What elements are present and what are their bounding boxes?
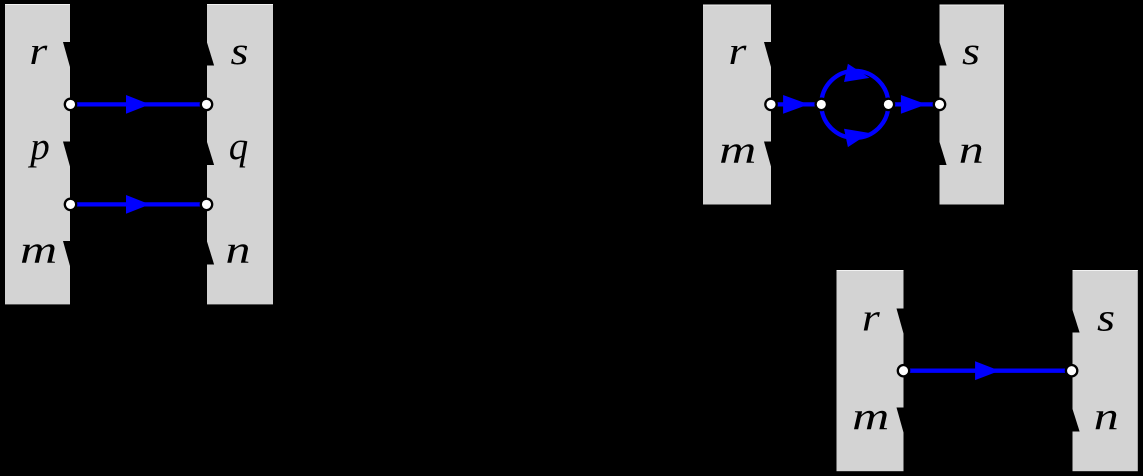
svg-text:n: n bbox=[1094, 396, 1119, 439]
svg-text:q: q bbox=[229, 125, 249, 168]
svg-text:r: r bbox=[729, 30, 748, 73]
svg-text:s: s bbox=[1097, 297, 1115, 340]
svg-text:n: n bbox=[226, 229, 251, 272]
svg-text:n: n bbox=[959, 129, 984, 172]
svg-text:p: p bbox=[27, 125, 50, 168]
svg-text:s: s bbox=[231, 30, 249, 73]
svg-text:m: m bbox=[20, 229, 57, 272]
svg-text:r: r bbox=[862, 297, 881, 340]
svg-text:r: r bbox=[29, 30, 48, 73]
svg-text:m: m bbox=[852, 396, 889, 439]
svg-text:m: m bbox=[719, 129, 756, 172]
svg-text:s: s bbox=[962, 30, 980, 73]
